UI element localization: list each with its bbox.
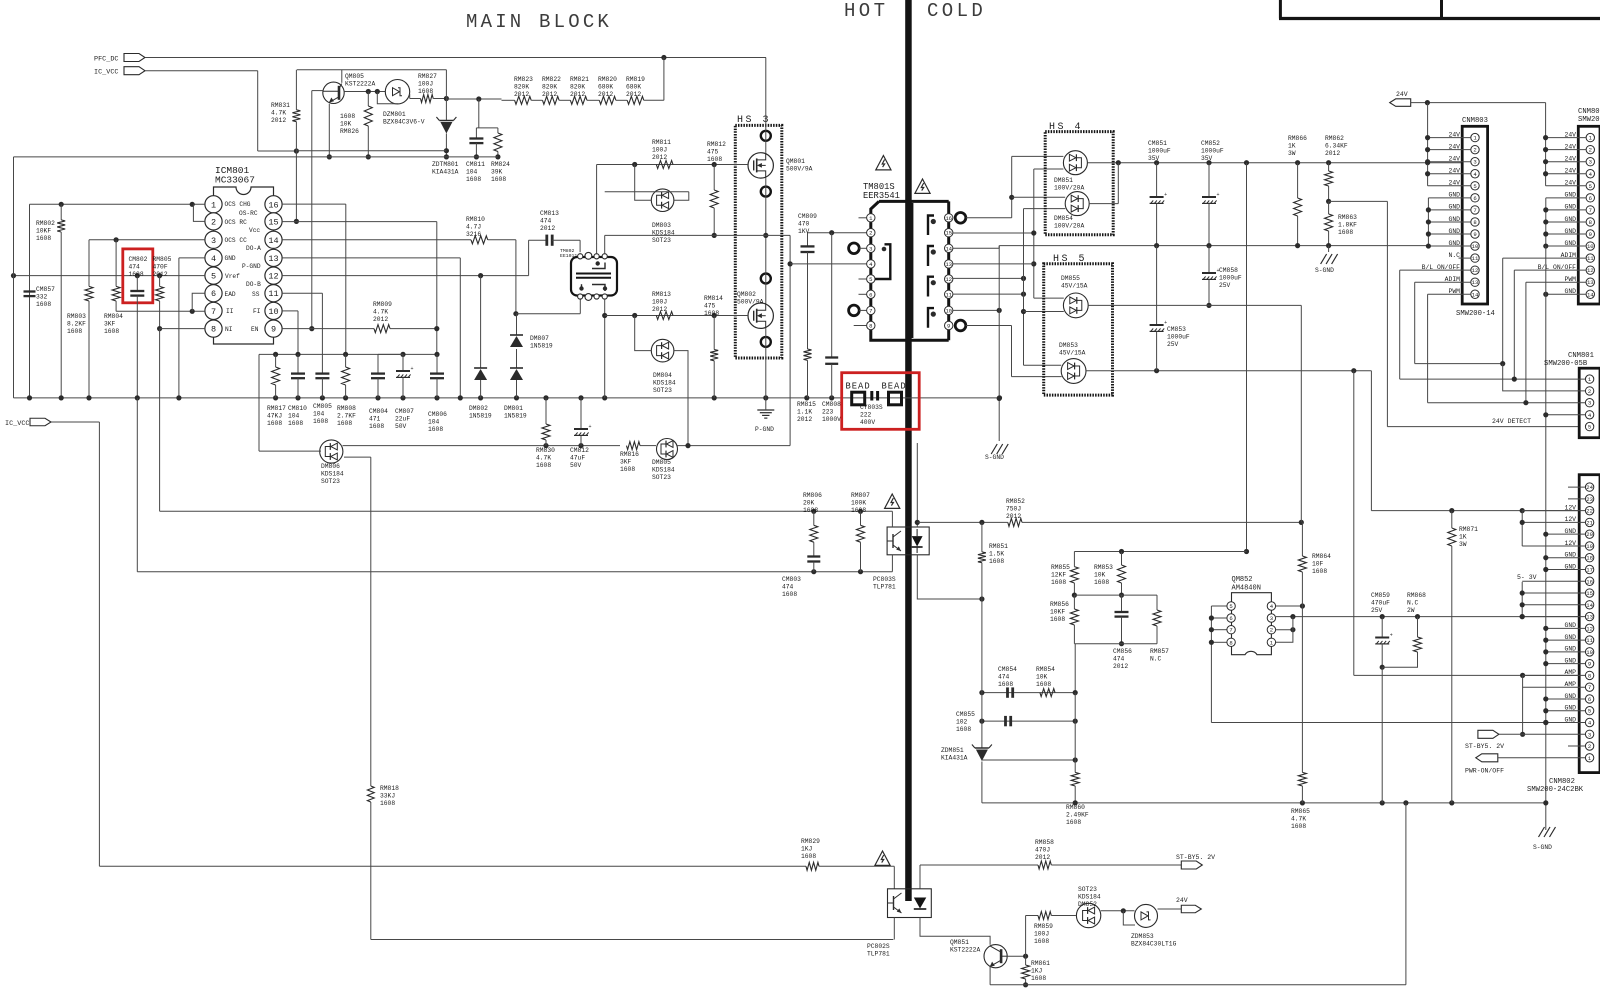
TM801S secondary pin 13 (945, 260, 953, 268)
svg-text:2012: 2012 (542, 91, 557, 98)
CNM804 pin 8 (1586, 218, 1594, 226)
svg-text:N.C: N.C (1150, 655, 1162, 662)
svg-text:104: 104 (428, 418, 440, 425)
svg-text:1608: 1608 (313, 418, 328, 425)
wire CNM802 pin2 stub (1568, 745, 1585, 747)
wire CNM803 pin3 24V main (1425, 159, 1430, 164)
svg-text:100J: 100J (1034, 930, 1049, 937)
svg-text:3KF: 3KF (104, 320, 116, 327)
svg-text:22uF: 22uF (395, 415, 410, 422)
svg-text:CM858: CM858 (1219, 267, 1238, 274)
wire 5-3V pins 16-14 (1522, 580, 1585, 582)
svg-text:223: 223 (822, 408, 834, 415)
svg-text:S-GND: S-GND (985, 454, 1004, 461)
svg-text:17: 17 (1586, 566, 1593, 573)
svg-text:47uF: 47uF (570, 454, 585, 461)
svg-text:CNM80-: CNM80- (1578, 108, 1600, 116)
ICM801 pin 2 (205, 213, 222, 230)
svg-text:22: 22 (1586, 508, 1593, 515)
svg-text:2012: 2012 (652, 154, 667, 161)
svg-text:3: 3 (869, 245, 872, 252)
svg-text:1000uF: 1000uF (1167, 333, 1190, 340)
wire pin7 II line (116, 310, 205, 312)
warning triangle near PC803S (885, 494, 900, 508)
wire pin11 SS to CM805 (282, 292, 322, 294)
svg-text:RM859: RM859 (1034, 923, 1053, 930)
svg-text:3KF: 3KF (620, 458, 632, 465)
wire pin8 NI line (160, 328, 205, 330)
TM801S secondary pin 16 (945, 214, 953, 222)
svg-text:Vref: Vref (225, 273, 240, 280)
svg-text:DM855: DM855 (1061, 275, 1080, 282)
CNM804 pin 10 (1586, 242, 1594, 250)
wire opto LED anode node (916, 443, 918, 527)
svg-text:680K: 680K (626, 83, 641, 90)
svg-text:RM862: RM862 (1325, 135, 1344, 142)
svg-text:OCS CC: OCS CC (225, 237, 248, 244)
svg-text:47KJ: 47KJ (267, 412, 282, 419)
svg-text:102: 102 (956, 718, 968, 725)
wire into PC802S (893, 866, 895, 889)
svg-text:KDS184: KDS184 (652, 466, 675, 473)
svg-text:10: 10 (945, 307, 952, 314)
svg-text:24V: 24V (1176, 897, 1188, 904)
wire QM801 source to midpoint (765, 178, 767, 303)
svg-text:14: 14 (945, 245, 952, 252)
wire QM851 emitter to bottom rail (989, 967, 991, 985)
svg-text:20K: 20K (803, 499, 815, 506)
svg-text:1.1K: 1.1K (797, 408, 812, 415)
svg-text:BZX84C30LT1G: BZX84C30LT1G (1131, 940, 1177, 947)
svg-text:8: 8 (1588, 672, 1591, 679)
svg-text:RM813: RM813 (652, 291, 671, 298)
svg-text:11: 11 (268, 289, 278, 299)
svg-text:ST-BY5. 2V: ST-BY5. 2V (1176, 854, 1215, 861)
CNM803 pin 3 (1471, 158, 1479, 166)
svg-text:1608: 1608 (36, 301, 51, 308)
svg-text:500V/9A: 500V/9A (737, 298, 764, 305)
svg-text:RM802: RM802 (36, 220, 55, 227)
secondary GND bus y=802.9 (982, 802, 1546, 804)
svg-text:BEAD: BEAD (846, 382, 871, 392)
wire far-left vertical (13, 157, 15, 398)
CNM802 pin 8 (1585, 671, 1593, 679)
wire pin13 (953, 263, 1034, 265)
svg-text:CNM801: CNM801 (1568, 352, 1594, 360)
svg-text:1608: 1608 (803, 507, 818, 514)
svg-text:1K: 1K (1288, 142, 1296, 149)
wire divider bottom line y=643.7 (1074, 643, 1157, 645)
svg-text:2: 2 (1588, 388, 1591, 395)
svg-text:1KJ: 1KJ (1031, 967, 1043, 974)
ICM801 pin 12 (265, 267, 282, 284)
wire pin15 Vcc line (282, 221, 437, 223)
svg-text:15: 15 (945, 230, 952, 237)
svg-text:1608: 1608 (36, 235, 51, 242)
secondary GND stem to S-GND (998, 246, 1000, 441)
svg-text:474: 474 (540, 217, 552, 224)
CNM802 pin 18 (1585, 554, 1593, 562)
HS3 mounting holes (761, 131, 771, 141)
wire pin14 to GND stem (953, 247, 999, 249)
wire divider mid line y=595.1 (1074, 594, 1157, 596)
svg-text:10K: 10K (1036, 673, 1048, 680)
TM802 winding marks (596, 261, 600, 265)
svg-text:1.5K: 1.5K (989, 550, 1004, 557)
TM801S primary pin 7 (867, 306, 875, 314)
svg-text:1608: 1608 (104, 328, 119, 335)
svg-text:5: 5 (1473, 183, 1476, 190)
wire DM851 output 24V line y=163 (1087, 162, 1462, 164)
svg-text:9: 9 (1588, 661, 1591, 668)
wire 24V detect feed (1329, 200, 1388, 202)
svg-text:50V: 50V (570, 462, 582, 469)
CNM802 pin 14 (1585, 601, 1593, 609)
QM852 pin 2 (1267, 626, 1275, 634)
CNM803 pin 6 (1471, 194, 1479, 202)
ICM801 pin 8 (205, 320, 222, 337)
wire CNM804 24V bus (1545, 103, 1547, 186)
CNM804 pin 9 (1586, 230, 1594, 238)
svg-text:19: 19 (1586, 543, 1593, 550)
svg-text:14: 14 (1586, 602, 1593, 609)
svg-text:7: 7 (1589, 207, 1592, 214)
wire CNM803 pin11 NC stub (1459, 257, 1471, 259)
svg-text:BZX84C3V6-V: BZX84C3V6-V (383, 118, 425, 125)
TM801S secondary pin 12 (945, 275, 953, 283)
svg-text:ZDTM801: ZDTM801 (432, 161, 459, 168)
svg-text:ZDM851: ZDM851 (941, 747, 964, 754)
wire TM802 bottom pin to QM802 gate line (604, 299, 606, 398)
svg-text:100V/20A: 100V/20A (1054, 222, 1084, 229)
svg-text:RM817: RM817 (267, 405, 286, 412)
svg-text:P-GND: P-GND (755, 426, 774, 433)
svg-text:3W: 3W (1459, 541, 1467, 548)
svg-text:SOT23: SOT23 (653, 387, 672, 394)
wire 12V to pin22/21/19 (1522, 510, 1585, 512)
svg-text:13: 13 (268, 254, 278, 264)
CNM804 pin 12 (1586, 266, 1594, 274)
svg-text:100J: 100J (418, 80, 433, 87)
svg-text:RM820: RM820 (598, 76, 617, 83)
CNM804 pin 4 (1586, 170, 1594, 178)
QM852 pin 8 (1227, 638, 1235, 646)
svg-text:CM802: CM802 (129, 256, 148, 263)
svg-text:S-GND: S-GND (1315, 267, 1334, 274)
svg-text:1000uF: 1000uF (1201, 147, 1224, 154)
wire left vertical x=29.5 (29, 204, 31, 398)
CNM802 pin 15 (1585, 589, 1593, 597)
CNM803 pin 4 (1471, 170, 1479, 178)
svg-text:RM864: RM864 (1312, 553, 1331, 560)
CNM802 pin 12 (1585, 624, 1593, 632)
CNM804 pin 14 (1586, 290, 1594, 298)
TM801S secondary pin 14 (945, 244, 953, 252)
svg-text:1608: 1608 (267, 420, 282, 427)
svg-text:1608: 1608 (67, 328, 82, 335)
wire TM801S pin8 stub (854, 325, 867, 327)
svg-text:5: 5 (1588, 424, 1591, 431)
CNM803 pin 8 (1471, 218, 1479, 226)
svg-text:2: 2 (1589, 147, 1592, 154)
svg-text:13: 13 (945, 261, 952, 268)
svg-text:10: 10 (1586, 649, 1593, 656)
svg-text:RM808: RM808 (337, 405, 356, 412)
svg-text:820K: 820K (570, 83, 585, 90)
svg-text:CNM802: CNM802 (1549, 778, 1575, 786)
wire AMP feed down (1353, 371, 1355, 676)
svg-text:N.C: N.C (1407, 599, 1419, 606)
svg-text:RM812: RM812 (707, 141, 726, 148)
wire ZDM851 ref line y=760 (982, 759, 1075, 761)
svg-text:1000V: 1000V (822, 416, 841, 423)
ferrite bead 1 (852, 392, 865, 405)
svg-text:1608: 1608 (369, 423, 384, 430)
svg-text:+: + (1217, 268, 1220, 274)
svg-text:CM857: CM857 (36, 286, 55, 293)
svg-text:2: 2 (1473, 147, 1476, 154)
svg-text:SMW200: SMW200 (1578, 116, 1600, 124)
wire RM818 line to PC802S (371, 939, 894, 941)
svg-text:16: 16 (1586, 578, 1593, 585)
svg-text:4.7J: 4.7J (466, 223, 481, 230)
wire IC_VCC long route (left/bottom) (30, 421, 99, 423)
wire QM802 gate line y=315.5 (605, 315, 748, 317)
svg-text:1608: 1608 (1066, 819, 1081, 826)
svg-text:RM815: RM815 (797, 401, 816, 408)
svg-text:1608: 1608 (1291, 823, 1306, 830)
highlight box CM802 (red) (123, 249, 153, 303)
wire node RM827/ZDTM801 (445, 70, 447, 99)
svg-text:680K: 680K (598, 83, 613, 90)
svg-text:13: 13 (1472, 279, 1479, 286)
svg-text:2012: 2012 (570, 91, 585, 98)
svg-text:12: 12 (1587, 267, 1594, 274)
svg-text:39K: 39K (491, 168, 503, 175)
TM801S primary pin 3 (867, 244, 875, 252)
svg-text:RM853: RM853 (1094, 564, 1113, 571)
svg-text:4.7K: 4.7K (1291, 815, 1306, 822)
wire RM811 gate line y=164.5 (597, 164, 748, 166)
highlight box BEAD/CY803S (red) (842, 373, 920, 430)
svg-text:1608: 1608 (1094, 579, 1109, 586)
svg-text:4.7K: 4.7K (373, 308, 388, 315)
svg-text:QM852: QM852 (1232, 576, 1253, 584)
svg-text:5- 3V: 5- 3V (1517, 574, 1537, 581)
svg-text:470F: 470F (153, 263, 168, 270)
wire 12V feed down (1370, 371, 1372, 511)
CNM804 pin 2 (1586, 145, 1594, 153)
svg-text:1.8KF: 1.8KF (1338, 221, 1357, 228)
svg-text:1608: 1608 (998, 681, 1013, 688)
svg-text:24V DETECT: 24V DETECT (1492, 418, 1531, 425)
svg-text:SS: SS (252, 291, 260, 298)
svg-text:13: 13 (1587, 279, 1594, 286)
svg-text:CM812: CM812 (570, 447, 589, 454)
ICM801 pin 5 (205, 267, 222, 284)
svg-text:25V: 25V (1167, 341, 1179, 348)
svg-text:KST2222A: KST2222A (345, 80, 375, 87)
svg-text:RM814: RM814 (704, 295, 723, 302)
svg-text:SMW200-14: SMW200-14 (1456, 310, 1495, 318)
primary ground bus y=397.9 (14, 397, 1000, 399)
svg-text:CM806: CM806 (428, 411, 447, 418)
CNM801 pin 3 (1585, 399, 1593, 407)
wire y=156.9 line (14, 156, 498, 158)
wire AMP pins (1523, 674, 1585, 676)
svg-text:2012: 2012 (797, 416, 812, 423)
svg-text:24V: 24V (1396, 91, 1408, 98)
svg-text:+: + (1164, 192, 1167, 198)
wire CNM804 pin11 ADIM (1503, 257, 1586, 259)
CNM801 pin 1 (1585, 375, 1593, 383)
svg-text:33KJ: 33KJ (380, 792, 395, 799)
wire CM811/RM824 top link (478, 99, 480, 128)
svg-text:100J: 100J (652, 146, 667, 153)
TM801S primary no-connect rings (849, 243, 860, 254)
wire DM806 sense route y=940 (370, 457, 372, 786)
wire pin3 OCS-CC line (89, 239, 205, 241)
svg-text:1608: 1608 (466, 176, 481, 183)
svg-text:CM854: CM854 (998, 666, 1017, 673)
ICM801 pin 11 (265, 285, 282, 302)
svg-text:2012: 2012 (540, 225, 555, 232)
wire CNM801 pin3 PWM net (1428, 402, 1585, 404)
svg-text:CM805: CM805 (313, 403, 332, 410)
svg-text:+: + (411, 366, 414, 372)
wire CNM801 pin2 ADIM net (1415, 363, 1503, 365)
svg-text:6: 6 (869, 291, 872, 298)
wire half-bridge midpoint y=235.4 (605, 234, 790, 236)
svg-text:RM854: RM854 (1036, 666, 1055, 673)
svg-text:474: 474 (782, 583, 794, 590)
svg-text:CM804: CM804 (369, 408, 388, 415)
svg-text:8: 8 (1229, 639, 1232, 646)
wire feedback return line y=571.7 (137, 571, 892, 573)
svg-text:3: 3 (1588, 731, 1591, 738)
svg-text:+: + (589, 424, 592, 430)
svg-text:EN: EN (251, 326, 259, 333)
wire DM853 output 12V line y=370.7 (1086, 370, 1371, 372)
svg-text:9: 9 (1589, 231, 1592, 238)
svg-text:1608: 1608 (704, 310, 719, 317)
svg-text:2.49KF: 2.49KF (1066, 811, 1089, 818)
svg-text:Vcc: Vcc (249, 227, 260, 234)
wire 5V feed to RM864/RM865 vertical (1300, 305, 1302, 522)
svg-text:RM829: RM829 (801, 838, 820, 845)
svg-text:CM809: CM809 (798, 213, 817, 220)
svg-text:9: 9 (271, 325, 276, 335)
HOT/COLD isolation divider (905, 0, 912, 901)
svg-text:RM856: RM856 (1050, 601, 1069, 608)
svg-text:6.34KF: 6.34KF (1325, 142, 1348, 149)
svg-text:5: 5 (1229, 603, 1232, 610)
svg-text:RM823: RM823 (514, 76, 533, 83)
wire CNM803 pin14 PWM (1428, 293, 1471, 295)
svg-text:RM861: RM861 (1031, 960, 1050, 967)
wire TM802 pin to RM811 gate line (596, 165, 598, 254)
wire pin11 (953, 293, 1024, 295)
svg-text:+: + (1164, 320, 1167, 326)
QM852 pin 1 (1267, 638, 1275, 646)
svg-text:7: 7 (1229, 627, 1232, 634)
wire y=150.7 (296, 150, 446, 152)
svg-text:1608: 1608 (1051, 579, 1066, 586)
svg-text:25V: 25V (1371, 607, 1383, 614)
wire CM855 line y=721.1 (982, 720, 1075, 722)
wire pin12 (953, 277, 1024, 279)
svg-text:1608: 1608 (418, 88, 433, 95)
svg-text:1608: 1608 (1031, 975, 1046, 982)
wire CNM801 pin1 B/L net (1400, 378, 1585, 380)
wire QM851 base node / RM861 (1007, 955, 1025, 957)
svg-text:6: 6 (211, 289, 216, 299)
svg-text:470J: 470J (1035, 846, 1050, 853)
wire CNM803 24V bus (1427, 103, 1429, 186)
svg-text:4.7K: 4.7K (271, 109, 286, 116)
PC803S LED (912, 536, 923, 546)
svg-text:RM822: RM822 (542, 76, 561, 83)
wire DM805 line y=445.6 (343, 445, 621, 447)
svg-text:104: 104 (313, 410, 325, 417)
svg-text:DZM801: DZM801 (383, 111, 406, 118)
svg-text:6: 6 (1229, 615, 1232, 622)
svg-text:1608: 1608 (851, 507, 866, 514)
svg-text:BEAD: BEAD (882, 382, 907, 392)
CNM802 pin 13 (1585, 612, 1593, 620)
svg-text:18: 18 (1586, 555, 1593, 562)
svg-text:10KF: 10KF (36, 227, 51, 234)
CNM802 pin 16 (1585, 577, 1593, 585)
CNM802 pin 5 (1585, 707, 1593, 715)
svg-text:1: 1 (211, 200, 216, 210)
svg-text:RM858: RM858 (1035, 839, 1054, 846)
svg-text:QM851: QM851 (950, 939, 969, 946)
svg-text:1608: 1608 (1312, 568, 1327, 575)
wire pin13 P-GND to bus (282, 257, 460, 259)
svg-text:PC802S: PC802S (867, 943, 890, 950)
CNM802 pin 20 (1585, 530, 1593, 538)
CNM803 pin 5 (1471, 182, 1479, 190)
svg-text:RM826: RM826 (340, 128, 359, 135)
wire PC802S LED anode to ST-BY line (919, 865, 921, 889)
wire PC802S LED cathode to QM851 collector (920, 918, 990, 945)
CNM802 pin 22 (1585, 506, 1593, 514)
wire secondary GND line y=245.6 (999, 245, 1428, 247)
svg-text:2012: 2012 (652, 306, 667, 313)
svg-text:PC803S: PC803S (873, 576, 896, 583)
TM801S primary pin 5 (867, 275, 875, 283)
svg-text:SOT23: SOT23 (652, 237, 671, 244)
svg-text:1608: 1608 (536, 462, 551, 469)
svg-text:7: 7 (1588, 684, 1591, 691)
svg-text:471: 471 (369, 415, 381, 422)
svg-text:820K: 820K (542, 83, 557, 90)
svg-text:DM803: DM803 (652, 222, 671, 229)
svg-text:IC_VCC: IC_VCC (5, 420, 29, 428)
svg-text:RM827: RM827 (418, 73, 437, 80)
ground symbol S-GND (RM863) (1328, 246, 1330, 252)
QM852 pin 3 (1267, 614, 1275, 622)
svg-text:1608: 1608 (380, 800, 395, 807)
wire pin12 DO-B line (282, 275, 528, 277)
CNM804 pin 11 (1586, 254, 1594, 262)
wire PFC_DC rail y=57.5 (145, 57, 766, 59)
wire QM852 left pins bus (1210, 606, 1212, 723)
svg-text:OCS CHG: OCS CHG (225, 201, 251, 208)
svg-text:474: 474 (129, 263, 141, 270)
svg-text:35V: 35V (1148, 155, 1160, 162)
